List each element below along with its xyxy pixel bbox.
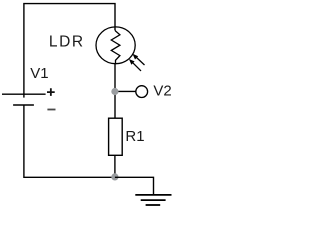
resistor R1 body bbox=[109, 118, 123, 155]
wire junction to ground bbox=[115, 177, 154, 195]
junction node dot at V2 tap bbox=[111, 88, 118, 95]
battery V1 lead stub through plate bbox=[23, 94, 25, 98]
wire LDR bottom to R1 top bbox=[114, 63, 116, 118]
terminal V2 open circle bbox=[136, 86, 148, 98]
wire junction to V2 terminal bbox=[115, 90, 136, 92]
ground bar 1 bbox=[135, 194, 171, 196]
LDR zigzag resistor element bbox=[111, 30, 120, 64]
battery V1 short negative plate bbox=[13, 104, 34, 106]
svg-text:LDR: LDR bbox=[49, 33, 85, 50]
LDR light arrow 2 bbox=[129, 59, 141, 71]
ground bar 3 bbox=[146, 204, 161, 206]
ground bar 2 bbox=[141, 199, 166, 201]
battery V1 long positive plate bbox=[2, 93, 46, 95]
LDR circle body bbox=[96, 27, 135, 64]
battery plus sign bbox=[47, 88, 55, 96]
wire top from V1 to LDR bbox=[24, 4, 115, 94]
svg-text:V1: V1 bbox=[30, 65, 48, 82]
svg-text:V2: V2 bbox=[153, 82, 171, 99]
LDR light arrow 1 bbox=[133, 54, 145, 65]
battery minus sign bbox=[47, 109, 55, 111]
junction node dot at bottom bbox=[111, 173, 118, 180]
svg-text:R1: R1 bbox=[125, 128, 144, 145]
wire from V1 minus down and along bottom to junction bbox=[24, 105, 115, 177]
wire R1 bottom to junction bbox=[114, 156, 116, 177]
